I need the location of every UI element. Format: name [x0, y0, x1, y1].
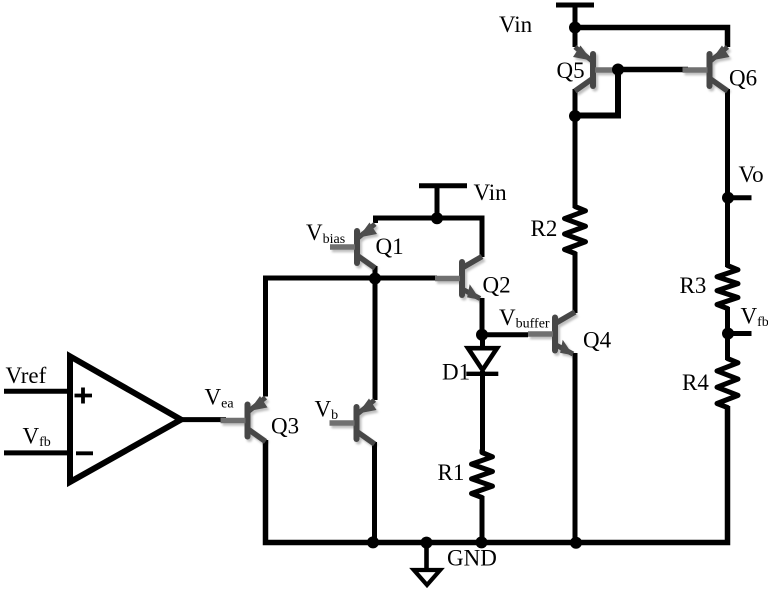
svg-text:Q5: Q5	[557, 58, 585, 83]
svg-text:R4: R4	[682, 370, 709, 395]
svg-text:R1: R1	[438, 460, 465, 485]
svg-text:Q1: Q1	[376, 234, 404, 259]
svg-text:Q6: Q6	[729, 66, 757, 91]
svg-text:D1: D1	[442, 360, 470, 385]
svg-text:Vin: Vin	[499, 12, 533, 37]
svg-text:Q4: Q4	[583, 328, 612, 353]
svg-text:R3: R3	[680, 273, 707, 298]
svg-text:Vo: Vo	[739, 162, 764, 187]
svg-text:Q2: Q2	[483, 273, 511, 298]
svg-text:Q3: Q3	[271, 414, 299, 439]
svg-text:Vin: Vin	[474, 180, 508, 205]
svg-text:R2: R2	[531, 216, 558, 241]
svg-text:GND: GND	[447, 545, 497, 570]
svg-text:Vref: Vref	[6, 363, 47, 388]
